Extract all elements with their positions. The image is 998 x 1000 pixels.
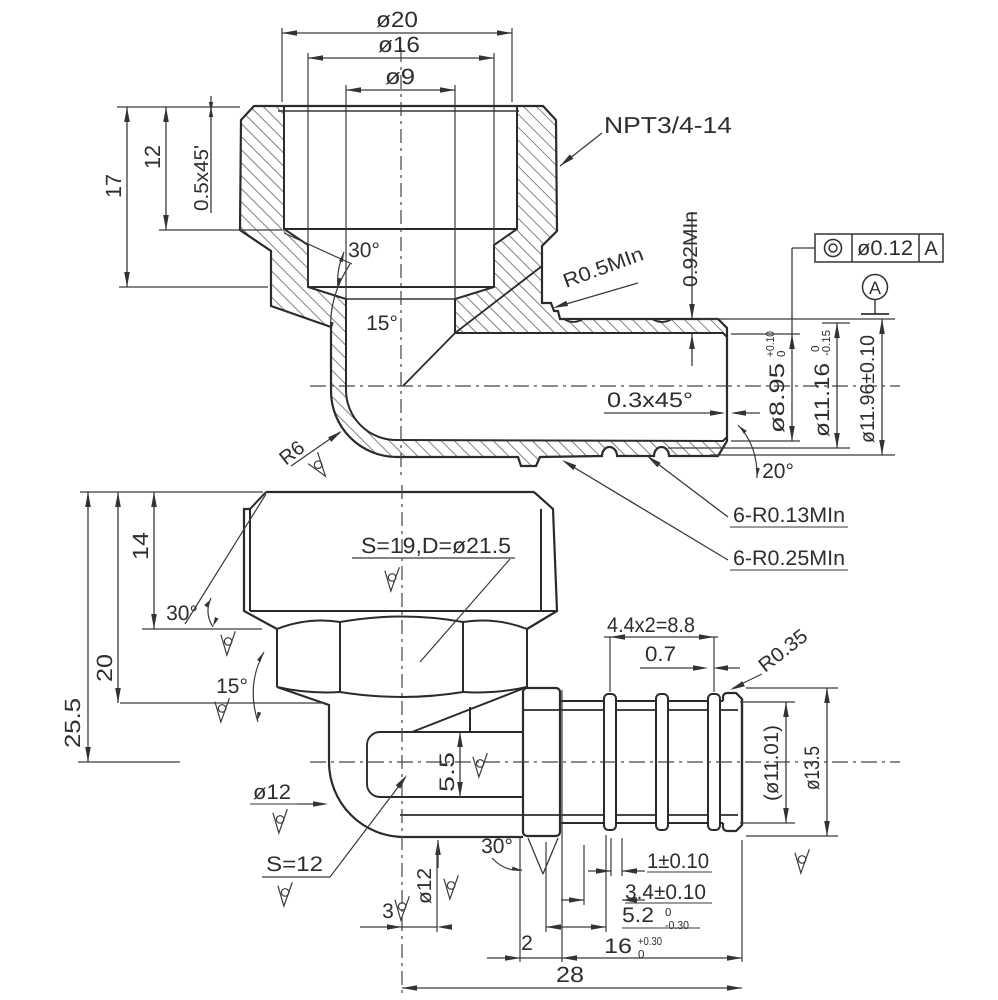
ext dia9 right	[454, 85, 456, 299]
right side ext lines	[700, 318, 895, 320]
svg-text:5.5: 5.5	[436, 752, 459, 792]
svg-text:30°: 30°	[348, 239, 380, 262]
end face	[741, 699, 743, 825]
R6 fillet callout	[291, 432, 340, 466]
svg-text:0.92MIn: 0.92MIn	[680, 211, 702, 287]
svg-text:ø13.5: ø13.5	[801, 746, 824, 790]
barb ring 2	[656, 694, 668, 830]
svg-text:15°: 15°	[216, 675, 248, 698]
dim dia11.16	[836, 323, 838, 448]
dim dia8.95	[791, 334, 793, 441]
dim 13.5	[746, 687, 838, 689]
svg-text:0: 0	[776, 351, 788, 357]
top face	[266, 491, 534, 493]
fcf leader	[792, 247, 815, 249]
pex barb outlet	[523, 688, 560, 836]
svg-text:0.7: 0.7	[645, 643, 676, 666]
dim 5.5	[459, 732, 461, 797]
svg-text:30°: 30°	[166, 602, 198, 625]
horizontal centerline	[310, 385, 900, 387]
svg-text:0: 0	[665, 907, 671, 919]
svg-text:30°: 30°	[481, 835, 513, 858]
svg-text:ø0.12: ø0.12	[857, 237, 913, 260]
dim 12	[165, 107, 167, 230]
svg-text:S=19,D=ø21.5: S=19,D=ø21.5	[361, 533, 511, 558]
bore silhouette edge	[469, 707, 471, 732]
svg-text:ø12: ø12	[253, 781, 291, 804]
svg-text:3: 3	[382, 900, 394, 923]
dim 11.01	[740, 701, 795, 703]
svg-text:4.4x2=8.8: 4.4x2=8.8	[607, 614, 695, 637]
angle 30 deg	[284, 233, 352, 264]
angle 20 deg	[738, 425, 757, 478]
svg-text:0.5x45': 0.5x45'	[191, 145, 213, 211]
body below hex	[277, 687, 523, 837]
ext dia16 left	[307, 53, 309, 287]
svg-text:R6: R6	[275, 437, 309, 470]
shaft top 1	[560, 700, 604, 702]
right wall outer	[527, 492, 557, 629]
cone bottom edge	[346, 298, 455, 300]
svg-text:-0.30: -0.30	[665, 920, 689, 932]
left extension lines	[117, 106, 240, 108]
part bore outline	[284, 106, 727, 441]
ext dia20 left	[281, 28, 283, 102]
svg-text:S=12: S=12	[266, 853, 323, 876]
bore step at depth 17	[308, 286, 494, 288]
svg-text:28: 28	[556, 962, 584, 987]
svg-text:ø8.95: ø8.95	[766, 363, 789, 433]
taper silhouette edge	[412, 687, 527, 732]
barb groove top 1	[564, 319, 583, 322]
svg-text:A: A	[869, 278, 881, 298]
svg-text:0.3x45°: 0.3x45°	[607, 389, 693, 412]
right thread minor line	[540, 509, 542, 611]
dim dia9	[346, 89, 455, 91]
svg-text:2: 2	[521, 932, 533, 955]
part outer outline	[240, 106, 727, 466]
dim 0.5x45 chamfer	[210, 96, 212, 213]
feature control frame	[815, 234, 943, 262]
dim dia11.96	[881, 319, 883, 455]
svg-text:16: 16	[604, 935, 632, 958]
barb groove top 2	[652, 319, 672, 322]
svg-text:-0.15: -0.15	[821, 330, 833, 356]
angle 15 deg hex	[253, 652, 264, 722]
svg-text:20°: 20°	[762, 460, 794, 483]
dim 20	[117, 492, 119, 703]
svg-text:NPT3/4-14: NPT3/4-14	[604, 112, 732, 138]
svg-text:ø20: ø20	[376, 7, 418, 32]
barb ring 1	[604, 694, 616, 830]
svg-text:1±0.10: 1±0.10	[647, 850, 709, 873]
top chamfer edge line	[278, 110, 519, 112]
label NPT3/4-14	[560, 133, 602, 166]
svg-text:(ø11.01): (ø11.01)	[761, 725, 783, 801]
dim dia12 vertical	[435, 840, 441, 855]
hatched wall section	[240, 106, 727, 466]
R0.5Min callout	[556, 283, 638, 307]
bore step at depth 12	[284, 228, 517, 230]
dim 0.3x45	[604, 412, 723, 414]
ext dia20 right	[511, 28, 513, 102]
left wall outer	[244, 509, 277, 629]
hex flats	[276, 629, 278, 687]
datum A	[863, 275, 888, 300]
dim 0.92Min	[691, 212, 693, 318]
dim 17	[126, 107, 128, 287]
ext dia16 right	[493, 53, 495, 287]
svg-text:ø11.16: ø11.16	[811, 363, 834, 437]
svg-text:14: 14	[128, 532, 153, 560]
cone tangent edge	[403, 266, 542, 386]
barb ring 3	[708, 694, 720, 830]
svg-text:A: A	[924, 238, 938, 260]
shaft bottom 1	[560, 822, 604, 824]
thread shoulder edge	[250, 610, 557, 612]
svg-text:12: 12	[140, 145, 165, 169]
svg-text:5.2: 5.2	[622, 904, 654, 927]
label 6-R0.13Min	[650, 458, 728, 517]
vertical centerline	[400, 48, 402, 478]
svg-text:15°: 15°	[366, 312, 398, 335]
svg-text:20: 20	[92, 654, 117, 682]
svg-text:17: 17	[101, 174, 126, 198]
dim dia16	[308, 57, 494, 59]
ext dia9 left	[345, 85, 347, 299]
outlet centerline	[310, 761, 900, 763]
svg-text:R0.35: R0.35	[755, 625, 813, 677]
dim 14	[153, 492, 155, 629]
svg-text:R0.5MIn: R0.5MIn	[560, 243, 646, 292]
vertical centerline	[401, 485, 403, 995]
svg-text:6-R0.13MIn: 6-R0.13MIn	[733, 504, 845, 527]
svg-text:+0.30: +0.30	[638, 936, 662, 948]
angle 15 deg	[331, 264, 350, 332]
svg-text:ø16: ø16	[378, 32, 420, 57]
svg-text:ø9: ø9	[385, 64, 415, 89]
dim 3	[360, 926, 437, 928]
dim dia20	[282, 32, 512, 34]
svg-text:25.5: 25.5	[60, 698, 85, 748]
end collar	[723, 693, 742, 831]
label 6-R0.25Min	[565, 462, 728, 560]
svg-text:ø11.96±0.10: ø11.96±0.10	[857, 335, 879, 443]
internal cavity slot	[367, 732, 523, 797]
svg-text:6-R0.25MIn: 6-R0.25MIn	[733, 547, 845, 570]
left wall inner	[250, 492, 266, 611]
svg-text:0: 0	[638, 949, 644, 961]
angle 30 deg hex	[185, 494, 266, 624]
dim 25.5	[87, 492, 89, 762]
left ext lines	[80, 491, 263, 493]
outlet bore lines	[523, 709, 738, 711]
svg-text:ø12: ø12	[414, 868, 436, 904]
